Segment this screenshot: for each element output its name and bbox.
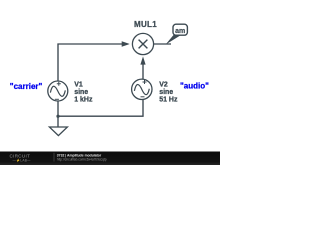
svg-text:am: am bbox=[175, 28, 185, 35]
svg-text:sine: sine bbox=[74, 89, 88, 96]
multiplier X bbox=[139, 40, 148, 49]
V2 plus bbox=[143, 80, 147, 84]
svg-text:sine: sine bbox=[159, 89, 173, 96]
svg-text:MUL1: MUL1 bbox=[134, 20, 157, 29]
arrowhead into MUL1 left input bbox=[122, 41, 130, 47]
op: multiplier MUL1 circle bbox=[132, 33, 153, 54]
wire V1 bottom to ground bbox=[57, 101, 59, 127]
junction dot bbox=[56, 115, 59, 118]
V1 minus bbox=[55, 98, 59, 100]
V1 sine glyph bbox=[50, 86, 65, 96]
svg-text:—⚡LAB—: —⚡LAB— bbox=[13, 158, 32, 162]
svg-text:V1: V1 bbox=[74, 82, 83, 89]
wire V2 bottom to junction bbox=[58, 99, 143, 116]
ground bbox=[49, 127, 67, 136]
svg-text:V2: V2 bbox=[159, 82, 168, 89]
svg-text:"audio": "audio" bbox=[180, 81, 209, 90]
arrowhead into MUL1 bottom input bbox=[140, 56, 145, 64]
svg-text:http://circuitlab.com/c6x4a7b9: http://circuitlab.com/c6x4a7b9ccqtp bbox=[57, 157, 107, 161]
wire V1 top to corner to MUL1 left input bbox=[58, 44, 123, 82]
svg-text:"carrier": "carrier" bbox=[10, 82, 43, 91]
wire MUL1 bottom input shaft bbox=[142, 64, 144, 79]
source V2 circle bbox=[132, 79, 152, 99]
flag am: box bbox=[173, 24, 187, 35]
flag am: tail bbox=[166, 35, 182, 45]
svg-text:1 kHz: 1 kHz bbox=[74, 97, 93, 104]
wire MUL1 output right bbox=[154, 43, 171, 45]
source V1 circle bbox=[48, 81, 68, 101]
V1 plus bbox=[57, 82, 61, 86]
svg-text:51 Hz: 51 Hz bbox=[159, 97, 178, 104]
V2 minus bbox=[141, 96, 145, 98]
V2 sine glyph bbox=[134, 85, 149, 95]
footer divider bbox=[53, 153, 55, 162]
